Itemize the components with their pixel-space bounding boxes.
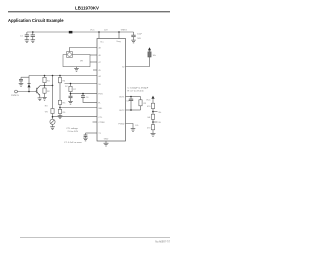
capacitor C7 xyxy=(85,133,87,135)
wire FGS to pin xyxy=(71,93,98,95)
ground for R2 xyxy=(42,97,46,100)
capacitor C5 xyxy=(69,96,73,98)
ground hall chain xyxy=(151,133,156,136)
svg-text:VR: VR xyxy=(80,61,83,63)
ground for C2 xyxy=(31,40,36,43)
node input/diode junction xyxy=(28,91,30,93)
wire FG pull-up xyxy=(126,57,150,67)
CTL chain vertical xyxy=(52,76,54,109)
capacitor C4 branch xyxy=(21,76,29,78)
main VCC rail xyxy=(27,31,134,33)
svg-text:Application Circuit Example: Application Circuit Example xyxy=(8,18,64,23)
svg-text:OUT2: OUT2 xyxy=(119,110,125,112)
svg-text:CTL voltage: CTL voltage xyxy=(66,127,78,130)
node rail SEL chain xyxy=(59,75,61,77)
svg-text:50V: 50V xyxy=(137,38,141,40)
capacitor C1 xyxy=(25,32,29,40)
pin 48 wire xyxy=(70,48,98,52)
node on 5V wire xyxy=(70,83,72,85)
svg-text:OUT1: OUT1 xyxy=(119,97,125,99)
node on R chain xyxy=(52,85,54,87)
input wire xyxy=(17,91,35,93)
svg-text:LB11970KV: LB11970KV xyxy=(75,5,99,10)
resistor R3 xyxy=(51,109,54,114)
svg-text:FGS: FGS xyxy=(98,94,103,96)
node SEL xyxy=(59,107,61,109)
pin 45 stub xyxy=(93,69,97,71)
header rule xyxy=(8,11,170,13)
node H+ xyxy=(152,111,154,113)
wire SEL to pin xyxy=(60,107,97,109)
svg-text:12V: 12V xyxy=(104,30,108,32)
resistor R9 snubber xyxy=(140,97,142,100)
diode D2 to input xyxy=(28,76,30,84)
svg-text:CTRM: CTRM xyxy=(98,122,104,124)
ground for C3 xyxy=(131,40,136,43)
node collector xyxy=(44,85,46,87)
wire T1 xyxy=(86,132,98,134)
svg-text:No.A0997-7/7: No.A0997-7/7 xyxy=(155,241,170,244)
resistor R5 xyxy=(58,100,61,104)
ground PGND xyxy=(131,129,136,132)
5V wire (pin 16) xyxy=(65,83,98,85)
transistor Q1 xyxy=(35,85,40,95)
wire OUT2 xyxy=(126,109,141,111)
hall element HE xyxy=(151,114,154,119)
potentiometer square xyxy=(67,52,73,58)
IC U1 LB11970KV body xyxy=(97,39,126,142)
svg-text:GND: GND xyxy=(104,139,109,141)
resistor R7 xyxy=(70,84,72,87)
pin 47 wire xyxy=(90,61,97,63)
node rail CTL chain xyxy=(52,75,54,77)
wire VCC pin stub xyxy=(98,32,100,39)
capacitor C8 snubber xyxy=(130,97,132,99)
ground below block xyxy=(76,67,78,69)
wire CTL to pin xyxy=(53,116,98,118)
variable resistor VR1 circle xyxy=(50,119,55,124)
footer rule xyxy=(20,236,170,238)
svg-text:C: 1000pF to 4700pF: C: 1000pF to 4700pF xyxy=(128,86,149,89)
svg-text:VREG: VREG xyxy=(121,30,127,32)
capacitor C3 at rail right end xyxy=(131,32,135,40)
resistor R11 xyxy=(151,125,154,130)
ground for R6 xyxy=(58,116,63,119)
resistor R1 pull-up xyxy=(44,76,46,78)
svg-text:C7: 0.1uF or more: C7: 0.1uF or more xyxy=(64,141,83,144)
svg-text:VCC: VCC xyxy=(90,30,95,32)
svg-text:Vcc: Vcc xyxy=(100,41,103,43)
ground for C1 xyxy=(25,40,30,43)
wire PGND xyxy=(126,124,134,129)
svg-text:R: 4.7 to 47 ohm: R: 4.7 to 47 ohm xyxy=(128,89,144,92)
svg-text:FG: FG xyxy=(136,125,139,127)
ground for C7 xyxy=(83,138,88,141)
node OUT1 xyxy=(130,96,132,98)
resistor R10 xyxy=(151,103,154,108)
collector node wire xyxy=(40,84,52,86)
svg-text:PWM IN: PWM IN xyxy=(11,95,19,97)
ground for C4 xyxy=(19,83,24,86)
node: rail to VCC pin xyxy=(98,31,100,33)
node: junction C2 on rail xyxy=(32,31,34,33)
svg-text:2.0 to 4.0V: 2.0 to 4.0V xyxy=(68,130,79,133)
capacitor C6 xyxy=(82,94,84,96)
hall bias chain: arrow to VCC xyxy=(151,96,154,99)
svg-text:PGND: PGND xyxy=(118,124,125,126)
svg-text:10uF: 10uF xyxy=(137,34,142,36)
node OUT2 xyxy=(130,109,132,111)
control block box xyxy=(63,55,90,67)
resistor R6 xyxy=(58,109,61,113)
ground for Q1 emitter xyxy=(38,98,42,101)
ground at IC bottom xyxy=(105,141,107,143)
pin 46 wire xyxy=(90,54,97,56)
node FGS xyxy=(70,93,72,95)
ground for VR1 xyxy=(50,127,55,130)
diode D1 in supply rail xyxy=(69,31,73,34)
wire VREG pin stub xyxy=(118,32,120,39)
node: rail to VREG pin xyxy=(118,31,120,33)
node rail R1 xyxy=(44,75,46,77)
node FL branch xyxy=(82,93,84,95)
arrow to VCC xyxy=(148,47,151,50)
VREG rail (second rail) xyxy=(29,75,97,77)
capacitor C2 xyxy=(31,32,35,40)
resistor R8 pull-up xyxy=(148,52,151,57)
svg-text:IN-: IN- xyxy=(158,122,161,124)
input terminal xyxy=(15,90,18,93)
pin CTRM label + stub xyxy=(93,121,98,123)
wire OUT1 xyxy=(126,96,141,98)
resistor R4 xyxy=(59,76,61,78)
resistor R2 lower xyxy=(44,85,46,88)
svg-text:VR: VR xyxy=(45,111,48,113)
node H- xyxy=(152,121,154,123)
node CTL xyxy=(52,116,54,118)
ground for C5 xyxy=(68,101,73,104)
svg-text:VCC: VCC xyxy=(146,99,151,101)
